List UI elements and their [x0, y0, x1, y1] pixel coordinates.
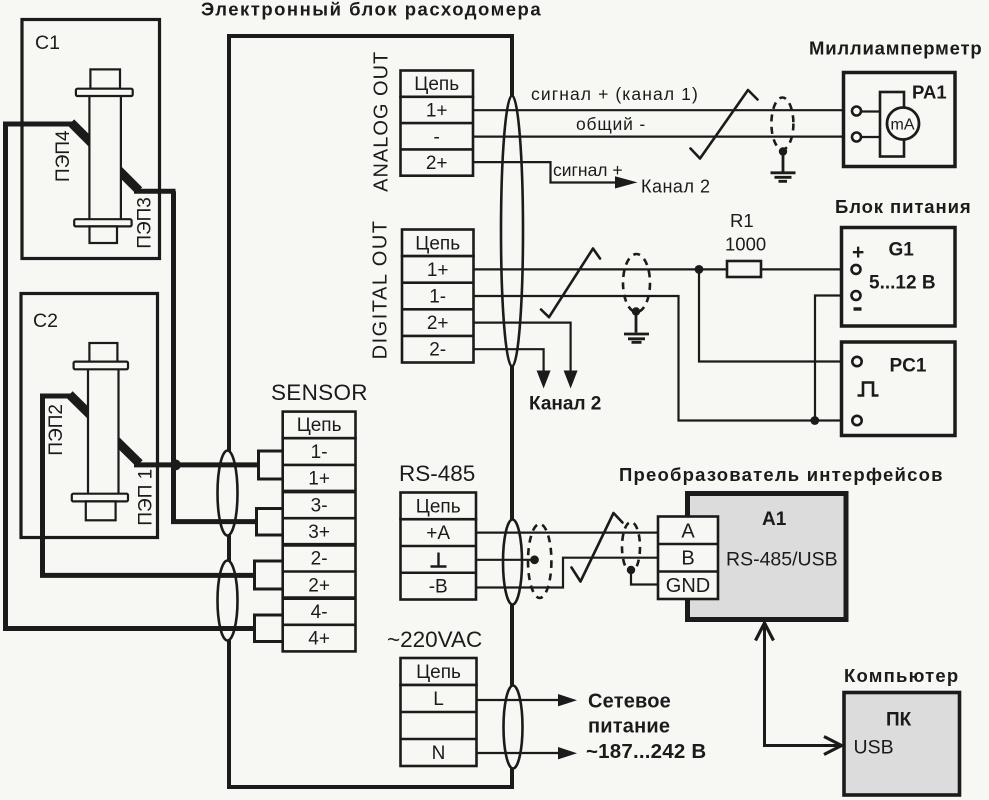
resistor R1 — [727, 261, 761, 277]
svg-text:~220VAC: ~220VAC — [387, 627, 482, 652]
G1 terminal - — [852, 291, 861, 300]
computer PC box — [844, 693, 960, 796]
pin labels ANALOG OUT: Цепь 1+ - 2+ — [414, 74, 459, 174]
svg-text:Сетевое: Сетевое — [588, 691, 671, 713]
transducer rod C2 — [72, 343, 128, 520]
wire RS-485 shield (⊥) — [476, 559, 534, 561]
sensor C1 box — [22, 20, 160, 259]
svg-text:Миллиамперметр: Миллиамперметр — [809, 38, 982, 59]
pin symbol ground (⊥) in RS-485 table — [431, 553, 447, 567]
arrow to Канал 2 (analog) — [615, 176, 638, 188]
wire RS-485 +A — [476, 531, 660, 533]
svg-text:2-: 2- — [311, 549, 328, 570]
pin labels ~220VAC: Цепь L N — [416, 662, 461, 764]
svg-text:5...12 В: 5...12 В — [869, 273, 936, 294]
arrow Сетевое питание N — [558, 747, 577, 759]
svg-text:1+: 1+ — [427, 260, 449, 281]
svg-text:4+: 4+ — [308, 629, 330, 650]
stub connector pin 3 pair — [257, 509, 284, 536]
svg-text:~187...242 В: ~187...242 В — [586, 740, 706, 763]
transducer rod C1 — [74, 69, 133, 243]
pulse counter PC1 box — [842, 342, 956, 436]
cable slash symbol (digital) — [541, 249, 600, 318]
milliammeter PA1 box — [844, 73, 956, 167]
cable slash symbol (RS-485) — [572, 513, 623, 582]
shield ellipse dashed (analog) — [771, 98, 793, 150]
cable slash symbol (analog) — [691, 90, 758, 159]
svg-text:+: + — [852, 241, 864, 264]
cable gland ellipse (sensor cables, lower) — [218, 561, 238, 641]
wire A1 to PC (USB) — [765, 623, 841, 746]
acoustic band C1 (thick diagonal) — [71, 123, 139, 191]
wire ПЭП2 of C2 to SENSOR pin 2 — [40, 396, 255, 575]
flowmeter electronic block outline — [229, 36, 512, 787]
svg-text:N: N — [432, 743, 446, 764]
pin labels DIGITAL OUT: Цепь 1+ 1- 2+ 2- — [415, 233, 460, 360]
wire junction to PC1 plus — [699, 269, 852, 361]
shield dot RS-485 right — [627, 566, 635, 574]
svg-text:Канал 2: Канал 2 — [529, 394, 601, 415]
arrow Сетевое питание L — [558, 694, 577, 706]
svg-text:L: L — [433, 689, 444, 710]
wire 220VAC N — [477, 752, 560, 754]
PA1 meter flag shape — [880, 92, 904, 157]
svg-text:1-: 1- — [429, 287, 446, 308]
svg-text:G1: G1 — [889, 240, 915, 261]
svg-text:RS-485: RS-485 — [399, 461, 475, 486]
svg-text:сигнал + (канал 1): сигнал + (канал 1) — [531, 84, 699, 104]
svg-text:общий -: общий - — [576, 114, 646, 134]
stub connector pin 4 pair — [255, 615, 284, 642]
svg-text:ПК: ПК — [886, 710, 912, 731]
svg-text:-B: -B — [429, 577, 448, 598]
label minus — [854, 307, 862, 310]
svg-text:A: A — [681, 521, 695, 543]
wire digital 2+ down arrow — [474, 323, 571, 371]
PA1 internal wires — [857, 112, 881, 138]
svg-text:PA1: PA1 — [912, 82, 947, 103]
svg-text:mA: mA — [891, 117, 915, 134]
cable gland ellipse (220VAC cable) — [504, 686, 523, 769]
svg-text:SENSOR: SENSOR — [271, 380, 368, 405]
junction dot R1 node — [695, 265, 704, 274]
ground (analog shield) — [771, 153, 796, 181]
connector table SENSOR — [283, 412, 356, 652]
svg-text:Преобразователь интерфейсов: Преобразователь интерфейсов — [619, 464, 944, 485]
svg-text:Компьютер: Компьютер — [844, 665, 959, 686]
svg-text:RS-485/USB: RS-485/USB — [726, 549, 838, 571]
pin labels SENSOR: Цепь 1- 1+ 3- 3+ 2- 2+ 4- 4+ — [297, 415, 342, 649]
shield dot RS-485 left — [530, 555, 539, 564]
PC1 terminal 1 — [852, 357, 861, 366]
svg-text:C2: C2 — [33, 310, 58, 332]
svg-text:1-: 1- — [311, 442, 328, 463]
shield dot (digital) — [632, 307, 640, 315]
PA1 terminal 1 — [852, 107, 861, 116]
svg-text:2+: 2+ — [308, 575, 330, 596]
svg-text:2+: 2+ — [426, 153, 448, 174]
sensor C2 box — [21, 294, 158, 538]
svg-text:питание: питание — [588, 716, 670, 738]
svg-text:Канал 2: Канал 2 — [641, 177, 710, 197]
svg-text:1+: 1+ — [426, 101, 448, 122]
svg-text:+A: +A — [426, 523, 450, 544]
stub connector pin 1 pair — [259, 451, 284, 479]
svg-text:Цепь: Цепь — [297, 415, 342, 436]
svg-text:ПЭП2: ПЭП2 — [46, 404, 67, 456]
shield ellipse dashed (RS-485 left) — [528, 524, 551, 598]
arrow into PC (chevron right) — [824, 737, 842, 755]
shield ellipse dashed (RS-485 right) — [622, 522, 640, 572]
PA1 meter circle mA — [887, 108, 919, 140]
svg-text:3-: 3- — [311, 495, 328, 516]
wire analog common - — [473, 136, 852, 138]
svg-text:4-: 4- — [311, 602, 328, 623]
svg-text:3+: 3+ — [308, 522, 330, 543]
svg-text:USB: USB — [854, 737, 894, 759]
svg-text:C1: C1 — [35, 32, 60, 54]
pulse symbol — [858, 383, 879, 396]
svg-text:Блок питания: Блок питания — [835, 196, 972, 217]
acoustic band C2 (thick diagonal) — [70, 395, 140, 464]
arrow канал 2 digital (left) — [537, 371, 551, 389]
interface converter A1 box — [688, 494, 847, 620]
svg-text:PC1: PC1 — [890, 356, 927, 377]
arrow канал 2 digital (right) — [564, 371, 578, 389]
wire ПЭП3 of C1 to SENSOR pin 3 — [174, 191, 259, 521]
svg-text:2-: 2- — [429, 340, 446, 361]
junction dot PC1 node — [810, 416, 819, 425]
wire analog 1+ (signal + channel 1) — [473, 109, 852, 111]
svg-text:1+: 1+ — [308, 469, 330, 490]
A1 pin cells A B GND — [658, 517, 718, 600]
wire ПЭП3 of C1 exit segment — [134, 189, 176, 194]
wire digital 1+ to R1 and G1 — [474, 268, 852, 270]
svg-text:GND: GND — [666, 575, 710, 597]
cable gland ellipse (RS-485 cable) — [503, 520, 522, 605]
pin labels A1: A B GND — [666, 521, 710, 598]
cable gland ellipse (sensor cables, upper) — [218, 451, 238, 536]
PA1 terminal 2 — [852, 133, 861, 142]
connector table ANALOG OUT — [401, 71, 474, 176]
pin labels RS-485: Цепь +A -B — [416, 496, 461, 597]
svg-text:Цепь: Цепь — [414, 74, 459, 95]
wire shield to GND cell — [631, 570, 660, 585]
svg-text:1000: 1000 — [725, 234, 766, 255]
svg-text:ANALOG OUT: ANALOG OUT — [371, 51, 393, 192]
arrow into A1 (chevron up) — [756, 623, 774, 641]
cable gland ellipse (analog/digital out trunk) — [501, 96, 523, 367]
connector table ~220VAC — [401, 658, 477, 766]
svg-text:ПЭП 1: ПЭП 1 — [136, 469, 157, 526]
wire RS-485 -B to B — [476, 558, 660, 588]
svg-text:Цепь: Цепь — [415, 233, 460, 254]
wire digital 2- down arrow — [474, 349, 544, 371]
svg-text:B: B — [681, 548, 694, 570]
svg-text:Цепь: Цепь — [416, 662, 461, 683]
wire ПЭП1 of C2 to SENSOR pin 1 — [134, 462, 259, 467]
svg-text:сигнал +: сигнал + — [553, 160, 623, 180]
stub connector pin 2 pair — [255, 561, 284, 589]
svg-text:2+: 2+ — [427, 313, 449, 334]
wire G1 minus to PC1 node — [815, 296, 852, 421]
svg-text:A1: A1 — [762, 509, 787, 530]
wire digital 1- to PC1 — [474, 296, 852, 421]
svg-text:DIGITAL OUT: DIGITAL OUT — [370, 219, 392, 359]
PC1 terminal 2 — [852, 416, 861, 425]
ground (digital shield) — [624, 313, 649, 342]
svg-text:ПЭП4: ПЭП4 — [53, 130, 74, 182]
junction dot sensor wires crossing — [170, 460, 181, 471]
svg-text:R1: R1 — [730, 210, 754, 231]
shield dot (analog) — [779, 147, 787, 155]
power supply G1 box — [842, 228, 956, 327]
svg-text:Цепь: Цепь — [416, 496, 461, 517]
wire 220VAC L — [477, 699, 560, 701]
wire analog 2+ (signal + channel 2) — [473, 162, 620, 182]
svg-text:ПЭП3: ПЭП3 — [135, 197, 156, 249]
svg-text:-: - — [434, 127, 440, 148]
svg-text:Электронный блок расходомера: Электронный блок расходомера — [201, 0, 542, 20]
connector table RS-485 — [401, 493, 477, 600]
shield ellipse dashed (digital) — [623, 254, 650, 312]
connector table DIGITAL OUT — [402, 230, 474, 363]
G1 terminal + — [852, 265, 861, 274]
wire ПЭП4 of C1 to SENSOR pin 4 (left outer path) — [6, 124, 257, 629]
